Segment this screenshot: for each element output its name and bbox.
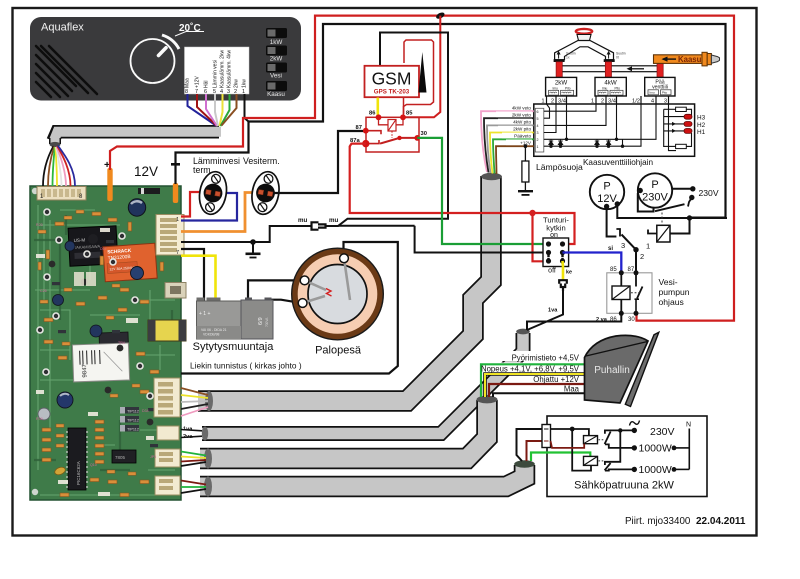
LED leads	[664, 117, 685, 131]
connector 7pin right	[156, 215, 184, 256]
relay 1 left pin	[648, 230, 657, 234]
manifold tent	[555, 41, 614, 60]
svg-text:7805: 7805	[115, 455, 126, 460]
control panel Aquaflex	[30, 17, 301, 101]
svg-text:Pito: Pito	[565, 86, 571, 90]
relay contact 87a	[366, 140, 379, 144]
Palopesa burner	[292, 248, 384, 340]
svg-text:TR4: TR4	[118, 341, 125, 345]
inline connector	[542, 425, 551, 448]
cable C4 PCB-to-sahkopatruuna	[200, 465, 525, 487]
switch3 contact	[616, 229, 620, 237]
svg-text:ohjaus: ohjaus	[659, 297, 684, 307]
node 85	[400, 114, 406, 120]
cable C2 end cap	[516, 329, 530, 335]
nozzle arrow left	[557, 51, 561, 55]
valve box paaventtiili	[645, 77, 675, 96]
cable C3 end cap	[477, 396, 498, 404]
thermostat Vesiterm	[249, 170, 282, 217]
LED driver column	[663, 109, 665, 147]
node 620	[618, 428, 622, 432]
wire fan yellow	[485, 374, 585, 397]
node 87	[363, 128, 369, 134]
pump relay coil	[612, 286, 630, 300]
wire fan white	[56, 147, 62, 186]
burner ring	[576, 29, 592, 34]
wire black to switch	[415, 226, 549, 253]
valve box 4kW	[595, 77, 626, 96]
wire fan black	[493, 393, 585, 397]
pump relay box	[607, 273, 652, 314]
LED H1	[684, 129, 692, 134]
node P12V b	[615, 201, 620, 206]
capacitor C26	[53, 295, 64, 306]
svg-text:3: 3	[537, 131, 539, 135]
node P12V a	[604, 204, 609, 209]
cable left end caps	[205, 391, 213, 411]
wire Hal violet	[206, 94, 217, 126]
svg-text:Pyörimistieto +4,5V: Pyörimistieto +4,5V	[512, 354, 580, 363]
svg-text:TIP112: TIP112	[127, 410, 139, 414]
pump P230V	[638, 173, 672, 207]
wire 2kW veto black	[484, 118, 534, 172]
wire orange vesiterm to PCB	[181, 193, 258, 232]
resistor top	[664, 108, 676, 110]
svg-text:Sytytysmuuntaja: Sytytysmuuntaja	[193, 341, 275, 353]
Kaasu pipe	[654, 55, 708, 64]
svg-text:D34: D34	[142, 409, 149, 413]
heater box	[547, 416, 707, 497]
svg-text:H3: H3	[697, 115, 706, 122]
svg-text:Pito: Pito	[662, 91, 668, 95]
node feed	[570, 427, 575, 432]
fan body	[585, 335, 649, 403]
wire +12V brown	[496, 146, 534, 174]
pump relay switch	[635, 273, 637, 287]
svg-text:H1: H1	[697, 129, 706, 136]
svg-text:4kW veto: 4kW veto	[512, 105, 532, 110]
capacitor	[131, 267, 144, 280]
capacitor black bottom	[88, 234, 98, 244]
squiggle 230V	[630, 421, 640, 426]
wire feed to relay1	[551, 429, 589, 436]
controller bus wiring	[544, 104, 676, 151]
svg-text:230V: 230V	[642, 192, 668, 204]
thermostat knob	[131, 39, 175, 83]
cable C2 PCB 1va2va	[202, 333, 523, 434]
wire minus black bus	[176, 24, 726, 218]
wire fan brown	[48, 147, 54, 187]
svg-text:Kaasu: Kaasu	[267, 91, 285, 98]
svg-text:1va: 1va	[548, 308, 558, 314]
relay GSM box	[366, 117, 419, 152]
LED H2	[684, 122, 692, 127]
svg-text:GSM: GSM	[372, 69, 412, 89]
valve pin stubs	[547, 96, 669, 104]
HT wire electrode2	[268, 300, 299, 303]
cable C1 PCB-to-gas-controller	[198, 176, 491, 401]
valve box 2kW	[546, 77, 577, 96]
node arm pivot	[397, 136, 401, 140]
N column	[688, 429, 690, 470]
relay coil	[388, 120, 396, 132]
svg-text:Ohjattu +12V: Ohjattu +12V	[533, 375, 580, 384]
valve stem 2kW	[556, 62, 562, 78]
svg-text:Lämmin vesi: Lämmin vesi	[213, 60, 219, 88]
wire red to switch bottom	[533, 213, 549, 261]
stubs C4	[181, 481, 206, 494]
cable C3 PCB-to-puhallin	[200, 400, 487, 459]
svg-text:2kW veto: 2kW veto	[512, 112, 532, 117]
wire vesiterm to relay87	[274, 131, 365, 193]
switch 1kW	[266, 28, 287, 38]
connector JP6 top	[37, 187, 86, 201]
svg-text:Q10: Q10	[90, 463, 97, 467]
relay contact 87	[366, 131, 381, 135]
pump relay nodes	[619, 270, 639, 316]
electrode rod 2	[303, 296, 325, 303]
wire fan blue	[58, 146, 75, 187]
svg-text:pumpun: pumpun	[659, 287, 690, 297]
spark symbol	[326, 289, 332, 297]
label minus	[171, 163, 180, 166]
ignition transformer body	[197, 298, 274, 340]
resistor bottom	[664, 145, 676, 147]
svg-text:Liekin tunnistus ( kirkas jo: Liekin tunnistus ( kirkas johto )	[190, 361, 302, 371]
svg-text:5: 5	[537, 117, 539, 121]
svg-text:Maa: Maa	[564, 384, 580, 393]
230V feed line	[605, 430, 634, 433]
pipe cone	[711, 55, 719, 63]
wire 1kw black to minus junction	[245, 94, 249, 122]
svg-text:N: N	[686, 422, 691, 429]
svg-text:GPS TK-203: GPS TK-203	[374, 89, 410, 96]
connector mu	[312, 222, 326, 229]
wire blue lamminvesi to PCB	[181, 193, 237, 221]
controller diodes	[549, 139, 611, 146]
relay dash links	[599, 439, 604, 441]
node 230V terminal	[632, 428, 637, 433]
ignition module white label	[72, 332, 130, 382]
svg-text:85: 85	[610, 267, 617, 273]
node ground tap	[250, 239, 256, 245]
switch S2 arm	[605, 463, 611, 470]
burner neck	[577, 35, 591, 41]
PCB board	[30, 186, 181, 500]
svg-text:si: si	[608, 246, 613, 252]
LED H3	[684, 114, 692, 119]
svg-text:2kw: 2kw	[234, 79, 240, 88]
svg-text:Imu: Imu	[650, 91, 655, 95]
wire fan darkred	[489, 384, 585, 397]
switch S1 bottom	[605, 444, 634, 448]
svg-text:JP5: JP5	[150, 455, 156, 459]
svg-text:1: 1	[537, 145, 539, 149]
wire 1va stub	[181, 430, 202, 431]
svg-text:12V: 12V	[134, 164, 158, 179]
relay R1 coil return darkred	[551, 441, 585, 448]
cable C4 end cap	[514, 460, 535, 468]
GSM box	[365, 66, 420, 97]
wire red GSM to 85	[403, 98, 405, 115]
connector right JP7	[154, 378, 180, 417]
resistors	[42, 212, 164, 497]
svg-text:1000W: 1000W	[639, 443, 672, 455]
stubs C3	[181, 452, 206, 467]
wire 30 green	[417, 138, 548, 244]
wire fan yellow	[55, 147, 57, 186]
capacitor C63	[57, 392, 73, 408]
svg-text:1kW: 1kW	[270, 39, 283, 46]
transistors TIP112	[120, 407, 139, 414]
svg-text:VDKDB/98: VDKDB/98	[203, 333, 220, 337]
wire 4kW pito gray	[487, 125, 534, 173]
wire P12V right to bus	[617, 203, 727, 219]
svg-text:Imu: Imu	[553, 86, 559, 90]
svg-text:85: 85	[406, 111, 413, 117]
wire blue si	[563, 253, 622, 273]
svg-text:Palopesä: Palopesä	[315, 345, 362, 357]
switch Kaasu	[266, 81, 287, 91]
pipe arrow	[628, 68, 644, 70]
pipe nut	[702, 52, 707, 66]
wire black cable to connector	[517, 429, 543, 461]
antenna red loop	[404, 40, 434, 115]
capacitor C28	[90, 325, 102, 337]
flame sense rod	[344, 258, 350, 300]
svg-text:2va: 2va	[183, 434, 193, 440]
switch S2 bottom	[605, 469, 634, 470]
wire red PCB to lamminvesi term	[181, 192, 205, 217]
svg-text:1x: 1x	[566, 55, 570, 59]
wire 4kW veto pink	[481, 111, 534, 172]
svg-text:off: off	[548, 268, 556, 275]
svg-text:VAI 06 - DIDA 21: VAI 06 - DIDA 21	[201, 328, 227, 332]
pcb traces	[35, 205, 178, 495]
wire P230V right	[671, 188, 693, 190]
svg-text:3: 3	[621, 241, 625, 250]
wire switch2 down	[635, 250, 637, 273]
svg-text:4: 4	[537, 124, 539, 128]
wire mu to PCB	[181, 226, 312, 242]
controller terminal strip	[535, 108, 544, 152]
wire fan green	[481, 364, 585, 397]
valve flange right	[604, 59, 615, 62]
wire yellow GSM to 86	[376, 98, 379, 116]
wire 2va stub	[181, 436, 202, 437]
node P230V left	[638, 188, 643, 193]
svg-text:9847: 9847	[82, 363, 88, 377]
connector right fan	[155, 449, 180, 467]
switch 2kW	[266, 46, 287, 56]
pin labels	[541, 99, 667, 105]
setpoint arc	[162, 35, 179, 49]
terminal minus orange	[173, 183, 178, 203]
svg-text:Vesi-: Vesi-	[659, 277, 678, 287]
wire Maa blue	[188, 94, 217, 126]
svg-text:H2: H2	[697, 122, 706, 129]
svg-text:6/9: 6/9	[258, 317, 264, 325]
svg-text:R23: R23	[36, 223, 43, 227]
wire 2kW pito yellow	[490, 133, 534, 174]
wire red to switch top	[533, 213, 575, 244]
svg-text:1000W: 1000W	[639, 464, 672, 476]
svg-text:20˚C: 20˚C	[179, 22, 201, 34]
svg-text:22.04.2011: 22.04.2011	[696, 516, 746, 527]
panel corner stripes	[36, 46, 97, 97]
wire 2kw yellow	[220, 94, 223, 126]
connector ke inline	[559, 280, 567, 291]
switch pump230 arm	[655, 204, 685, 211]
svg-text:1: 1	[176, 217, 179, 223]
connector right heater	[155, 476, 180, 495]
wire darkred connector to cable	[527, 441, 543, 461]
svg-text:2kW: 2kW	[270, 56, 283, 63]
wire fan red	[57, 146, 70, 186]
node 87a	[362, 140, 369, 147]
transformer wire yellow	[181, 256, 216, 302]
svg-text:R39: R39	[36, 417, 43, 421]
svg-text:Puhallin: Puhallin	[594, 365, 630, 376]
svg-text:30: 30	[628, 317, 635, 323]
gas pipe	[559, 66, 660, 72]
thermostat Lamminvesi term	[196, 170, 229, 217]
wire +12V dark red	[197, 94, 217, 126]
controller junction dots	[549, 138, 624, 148]
crystal Y1	[54, 466, 67, 476]
svg-text:US-M: US-M	[74, 237, 86, 243]
svg-text:1va: 1va	[183, 427, 193, 433]
svg-text:700VA: 700VA	[265, 317, 269, 327]
relay SCHRACK TN31200B orange	[103, 243, 157, 282]
svg-text:Lämpösuoja: Lämpösuoja	[536, 162, 583, 172]
Lampsuoja tap	[524, 144, 528, 148]
svg-text:4kW pito: 4kW pito	[513, 120, 531, 125]
svg-text:D17: D17	[100, 247, 107, 251]
wire 1va down	[527, 291, 563, 330]
svg-text:Häl: Häl	[204, 80, 210, 88]
svg-text:Kaasulämm. 4kw: Kaasulämm. 4kw	[227, 50, 233, 88]
valve stem 4kW	[605, 62, 611, 78]
switch3 arm	[622, 235, 637, 250]
svg-text:Kaasuventtiiliohjain: Kaasuventtiiliohjain	[583, 158, 654, 167]
svg-text:Piirt. mjo33400: Piirt. mjo33400	[625, 516, 691, 527]
fan blade	[625, 332, 659, 406]
svg-text:86: 86	[369, 111, 376, 117]
svg-text:2: 2	[537, 138, 539, 142]
switch S1 arm	[605, 432, 611, 445]
electrode bushing 1	[300, 276, 309, 285]
svg-text:Aquaflex: Aquaflex	[41, 22, 84, 34]
svg-text:Pito: Pito	[615, 86, 621, 90]
svg-text:on: on	[550, 232, 558, 239]
electrode bushing 2	[298, 299, 307, 308]
svg-text:TIP112: TIP112	[127, 419, 139, 423]
wire P12V to switch3	[607, 207, 617, 237]
svg-text:ke: ke	[566, 270, 572, 276]
wire flame detect PCB to electrode	[181, 242, 398, 374]
svg-text:0t: 0t	[616, 55, 619, 59]
valve stem paaventtiili	[657, 63, 663, 77]
pin label box	[185, 47, 250, 94]
wire +12V red bus	[110, 16, 734, 321]
relay arm	[380, 138, 417, 144]
svg-text:Kaasulämm. 2kw: Kaasulämm. 2kw	[220, 50, 226, 88]
wire labels	[496, 105, 532, 146]
node 1000W a	[632, 445, 637, 450]
relay 1 right pin	[670, 218, 690, 234]
svg-text:7: 7	[176, 250, 179, 256]
label bg rows	[466, 351, 581, 393]
capacitor C51 silver	[38, 408, 50, 420]
ground symbol	[252, 242, 254, 253]
relay 1 box	[657, 225, 670, 242]
transformer wire black 1	[181, 249, 204, 302]
transformer TR4 yellow	[148, 320, 186, 341]
relay1 dashes	[661, 213, 663, 226]
flame rod bushing	[340, 254, 349, 263]
relay K1 black	[68, 226, 118, 266]
svg-text:TIP112: TIP112	[127, 428, 139, 432]
wire fan pink	[57, 147, 66, 187]
capacitor C31	[128, 199, 145, 216]
wire green cable to relay2	[531, 453, 590, 462]
node 86	[376, 114, 382, 120]
svg-text:Nopeus +4,1V, +6,8V, +9,5V: Nopeus +4,1V, +6,8V, +9,5V	[481, 364, 580, 373]
svg-text:P: P	[651, 179, 658, 191]
svg-text:Sähköpatruuna 2kW: Sähköpatruuna 2kW	[574, 480, 674, 492]
valve flange left	[554, 59, 565, 62]
svg-text:Imu: Imu	[602, 86, 608, 90]
svg-text:12V: 12V	[597, 193, 617, 205]
nozzle arrow right	[607, 51, 611, 55]
terminal + orange	[107, 168, 112, 201]
wire Lammin vesi white	[215, 94, 218, 126]
switch Vesi	[266, 63, 287, 73]
node bus218	[687, 215, 692, 220]
wire fan green	[53, 147, 55, 186]
connector JP8	[165, 283, 186, 299]
pump P12V	[590, 175, 624, 209]
svg-text:2kW pito: 2kW pito	[513, 127, 531, 132]
wire yellow ke	[561, 261, 564, 280]
wire branch to relay2 bottom	[572, 429, 591, 471]
diode D31	[138, 188, 160, 194]
svg-text:P: P	[603, 181, 610, 193]
IC 7805	[112, 450, 136, 463]
svg-text:mu: mu	[329, 217, 339, 224]
node 30	[414, 135, 420, 141]
node red tap	[529, 210, 535, 216]
wire 2kw brown	[222, 94, 237, 126]
cable C0 panel-to-PCB	[53, 132, 221, 144]
svg-text:PIC16C62A: PIC16C62A	[76, 461, 81, 485]
switch box	[543, 238, 569, 267]
svg-text:Vesiterm.: Vesiterm.	[243, 156, 280, 166]
node bus junction	[435, 11, 446, 20]
connector right 1va2va	[157, 426, 179, 440]
node 230V supply a	[690, 186, 695, 191]
svg-text:87: 87	[356, 125, 362, 131]
svg-text:230V: 230V	[699, 188, 719, 198]
pcb pads	[32, 188, 179, 495]
svg-text:30: 30	[421, 131, 427, 137]
stubs C1	[181, 388, 208, 416]
relay R1	[584, 436, 598, 444]
antenna	[419, 52, 427, 93]
svg-text:+ 1 +: + 1 +	[199, 311, 210, 317]
wire red drop to relay 85	[405, 16, 441, 118]
